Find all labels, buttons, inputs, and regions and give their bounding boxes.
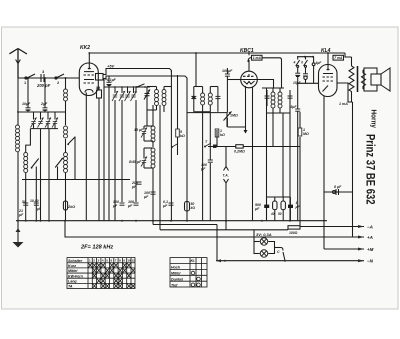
coil osc 2 — [129, 148, 155, 171]
coil antenna choke — [64, 78, 68, 103]
terminal TA arrows — [223, 167, 229, 184]
switch band left — [31, 159, 39, 169]
svg-text:1 mA: 1 mA — [339, 102, 348, 106]
capacitor 100uF KBC1 grid — [222, 68, 233, 113]
svg-text:8 µF: 8 µF — [334, 185, 342, 189]
left tuning block vertical wires — [17, 78, 19, 125]
resistor KK2 cathode — [96, 86, 102, 98]
terminal arrows — [358, 225, 364, 262]
switch tone 1 — [293, 57, 300, 68]
capacitor IF2 right — [215, 96, 220, 98]
svg-text:Lang: Lang — [68, 279, 77, 283]
ground symbol — [13, 221, 24, 248]
svg-text:8/45 µF: 8/45 µF — [129, 160, 142, 164]
svg-text:2µF: 2µF — [40, 102, 48, 106]
tube KBC1 — [240, 48, 257, 88]
transformer core — [357, 66, 359, 92]
IF3 frame wires — [262, 88, 290, 113]
coil L2 RF — [64, 126, 68, 138]
svg-text:Horny: Horny — [369, 110, 376, 129]
svg-text:5µF: 5µF — [291, 105, 298, 109]
capacitor 500uF — [254, 197, 269, 221]
svg-text:Hoch: Hoch — [171, 266, 181, 270]
capacitor 8uF — [333, 185, 343, 195]
left block top horizontal wires — [17, 111, 66, 113]
capacitor 0.1uF screen — [105, 78, 117, 86]
potentiometer 1MOhm — [224, 112, 238, 121]
table switch positions — [67, 258, 135, 289]
table tone — [170, 258, 207, 287]
svg-text:4: 4 — [293, 61, 296, 65]
svg-text:2F= 128 kHz: 2F= 128 kHz — [80, 245, 113, 251]
antenna — [9, 49, 27, 79]
node dots top bus — [88, 52, 329, 54]
svg-text:1 mA: 1 mA — [253, 56, 262, 60]
capacitor 100pF bus — [127, 200, 139, 208]
svg-text:Kl.: Kl. — [191, 259, 196, 263]
oscillator section vertical wires — [108, 86, 110, 221]
wire lamp loop — [254, 230, 260, 254]
coil IF1 primary — [155, 87, 159, 111]
lamp 2 — [260, 250, 267, 257]
capacitor 200pF osc — [131, 181, 142, 189]
svg-text:10µF: 10µF — [22, 102, 31, 106]
tube KK2 — [79, 45, 98, 96]
coil L3 lower left — [24, 153, 28, 173]
capacitor 1uF power — [288, 197, 301, 221]
resistor 1MOhm right — [298, 128, 309, 136]
svg-text:2kΩ: 2kΩ — [67, 204, 75, 209]
wire tone tie — [297, 56, 314, 58]
svg-text:Prinz 37 BE 632: Prinz 37 BE 632 — [364, 134, 378, 205]
svg-text:+M: +M — [367, 247, 374, 252]
lamp 1 — [260, 238, 267, 245]
svg-text:KL4: KL4 — [321, 48, 331, 54]
capacitor IF3 right — [288, 96, 293, 98]
ground bus — [16, 220, 327, 222]
svg-text:10: 10 — [127, 259, 131, 263]
tube KL4 — [319, 48, 338, 97]
svg-text:+5V: +5V — [107, 64, 115, 69]
transformer secondary — [362, 70, 366, 89]
svg-text:1MΩ: 1MΩ — [230, 114, 238, 118]
wire power top — [267, 196, 291, 198]
node dots grid wire — [108, 86, 137, 88]
svg-text:4µF: 4µF — [315, 61, 323, 65]
coil IF1 secondary — [162, 87, 166, 113]
meter 1mA KBC1 — [248, 55, 282, 88]
varcap osc coil 1 — [141, 126, 153, 141]
IF3 transformer left coil — [271, 88, 275, 113]
capacitor IF2 left — [191, 96, 196, 98]
IF2 transformer right coil — [208, 87, 212, 112]
switch 1 antenna — [24, 74, 35, 85]
capacitor 300pF bus — [112, 200, 125, 208]
svg-text:100Ω: 100Ω — [289, 231, 298, 235]
svg-text:T.A.: T.A. — [223, 174, 229, 178]
svg-text:40: 40 — [270, 212, 275, 216]
capacitor 2uF left — [40, 102, 48, 111]
resistor 100 Ohm heater — [288, 226, 300, 235]
svg-text:Dunkel: Dunkel — [171, 277, 184, 281]
wire cathode resistor down — [98, 98, 100, 221]
svg-text:C: C — [277, 250, 280, 254]
switch wave range — [67, 137, 75, 145]
resistor 0.2MOhm — [234, 145, 245, 154]
switch 2 antenna — [55, 74, 64, 85]
meter 7mA KL4 — [333, 55, 344, 60]
capacitor 0.1uF bus — [162, 200, 174, 208]
capacitor tone 1 — [295, 67, 300, 83]
wire -N line — [216, 260, 364, 262]
capacitor 10uF left — [22, 102, 31, 111]
svg-text:+0,1µF: +0,1µF — [105, 78, 117, 82]
wire +A run — [65, 221, 364, 237]
switch mains — [277, 248, 285, 261]
svg-text:−N: −N — [367, 259, 374, 264]
wire tone ground — [298, 82, 319, 84]
resistor 100 Ohm — [270, 197, 277, 221]
svg-text:10-80: 10-80 — [30, 199, 39, 203]
wire heater line — [160, 229, 288, 231]
svg-text:KK2: KK2 — [80, 45, 90, 51]
coil L1 antenna — [16, 112, 20, 152]
wire KK2 cathode down — [85, 93, 87, 221]
wire -A line — [300, 226, 364, 228]
svg-text:0,1µF: 0,1µF — [162, 200, 168, 208]
switch band right — [55, 158, 63, 168]
wire speaker connections — [363, 69, 365, 71]
varcap osc coil 2 — [141, 148, 153, 168]
terminal labels — [367, 225, 374, 264]
varcap IF1 — [144, 90, 150, 100]
wire KBC1 plate right — [257, 80, 273, 89]
wire plate elbow down — [103, 79, 105, 221]
svg-text:0: 0 — [301, 61, 303, 65]
svg-text:+A: +A — [367, 235, 373, 240]
wire top bus — [89, 52, 346, 54]
svg-text:Schalter: Schalter — [68, 259, 83, 263]
capacitor 10-80uF bottom-left — [30, 199, 42, 211]
capacitor 5000pF — [200, 160, 213, 171]
switch T pickup — [204, 140, 211, 148]
svg-text:50: 50 — [22, 200, 26, 204]
capacitor 21uF bottom-left — [18, 200, 28, 217]
transformer output primary — [349, 57, 354, 102]
wire heater stub — [153, 224, 217, 226]
svg-text:0,2MΩ: 0,2MΩ — [234, 150, 245, 154]
svg-text:Mittel: Mittel — [68, 269, 78, 273]
anode box KK2 — [96, 74, 104, 81]
wire grid line KK2 — [104, 86, 150, 88]
resistor 50 Ohm — [278, 197, 285, 221]
switch tone 2 — [301, 57, 307, 68]
svg-text:KW-Fern: KW-Fern — [68, 274, 84, 278]
node dots on ground bus — [17, 220, 291, 222]
trimmer capacitor row — [31, 112, 37, 129]
node square junction — [213, 145, 217, 149]
wire mains drop — [216, 225, 218, 261]
wire +M line — [324, 248, 364, 250]
wire screen cap stub — [108, 76, 110, 82]
wire KBC1 lead to bus — [248, 53, 250, 55]
svg-text:200 pF: 200 pF — [36, 83, 51, 88]
node antenna junction — [65, 77, 67, 79]
svg-text:3V; 0,3A: 3V; 0,3A — [256, 232, 272, 237]
capacitor tone 2 — [303, 67, 308, 83]
wire grid bus mid — [208, 146, 300, 148]
variable capacitor osc 1 — [112, 91, 118, 101]
capacitor 100pF osc — [143, 191, 156, 199]
speaker — [364, 68, 390, 91]
svg-text:−A: −A — [367, 225, 373, 230]
capacitor IF3 left — [265, 96, 270, 98]
svg-text:Tief: Tief — [171, 283, 178, 287]
arrow detector down — [245, 127, 247, 133]
svg-text:Kurz: Kurz — [68, 264, 76, 268]
switch osc band — [171, 144, 178, 149]
resistor 50kOhm bus — [185, 202, 196, 212]
wire +5V feedback lines — [103, 69, 171, 75]
coil L4 lower — [64, 153, 68, 173]
wire AVC loop — [226, 118, 228, 127]
wire 8uF line — [324, 191, 353, 193]
wire detector tie — [187, 112, 227, 114]
resistor 2kOhm — [63, 201, 75, 210]
svg-text:Mittel: Mittel — [171, 272, 181, 276]
svg-text:11: 11 — [132, 259, 136, 263]
variable capacitor osc 2 — [119, 91, 125, 101]
IF1 frame wires — [146, 87, 148, 111]
svg-text:7 mA: 7 mA — [334, 56, 343, 60]
IF3 transformer right coil — [278, 88, 282, 113]
resistor 1kOhm — [215, 129, 225, 137]
capacitor 5uF KL4 — [291, 105, 301, 111]
variable capacitor osc 3 — [125, 91, 131, 101]
wire antenna input — [18, 77, 79, 79]
variable capacitor osc 4 — [131, 91, 137, 101]
IF2 frame wires — [194, 87, 218, 112]
svg-text:KBC1: KBC1 — [240, 48, 254, 54]
wire top bus right drop — [345, 53, 352, 57]
capacitor 200pF — [36, 69, 51, 88]
svg-text:50: 50 — [278, 212, 282, 216]
node dots antenna wire — [27, 77, 46, 79]
IF2 transformer left coil — [201, 87, 205, 112]
coil osc 1 — [134, 126, 155, 142]
wire KL4 cathode to transformer — [338, 83, 353, 102]
svg-text:TA: TA — [68, 285, 73, 289]
switch osc — [136, 84, 146, 88]
mid vertical wires — [202, 112, 204, 221]
resistor 5kOhm — [176, 129, 185, 138]
capacitor 4uF — [312, 57, 322, 84]
